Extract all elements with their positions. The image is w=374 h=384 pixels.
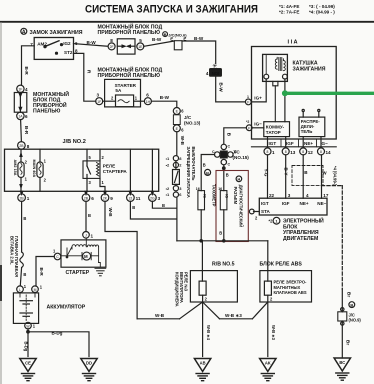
svg-text:14: 14 — [326, 150, 332, 155]
svg-text:6: 6 — [91, 196, 94, 201]
battery second terminal — [32, 285, 43, 293]
svg-text:IG−: IG− — [202, 194, 206, 201]
battery symbol — [20, 293, 35, 322]
wire IG- to igniter — [253, 127, 264, 129]
svg-text:22: 22 — [269, 193, 275, 198]
svg-text:Br: Br — [347, 292, 352, 297]
svg-text:AK: AK — [265, 361, 271, 366]
svg-text:ПРИБОРНОЙ ПАНЕЛЬЮ: ПРИБОРНОЙ ПАНЕЛЬЮ — [98, 71, 161, 79]
starter ground — [95, 268, 106, 276]
svg-text:B-R: B-R — [24, 126, 29, 135]
wire ABS relay to ground AK — [267, 302, 269, 357]
relay pin 2 — [99, 149, 101, 161]
J/C NO.6 label B — [163, 32, 187, 38]
svg-text:NE+: NE+ — [304, 141, 313, 146]
svg-text:6: 6 — [146, 92, 149, 97]
starter relay box — [83, 161, 100, 179]
svg-text:C: C — [212, 150, 215, 154]
svg-text:C: C — [228, 163, 231, 167]
svg-text:B-R: B-R — [39, 268, 44, 277]
svg-text:AM2 15A: AM2 15A — [13, 160, 17, 176]
svg-text:*2: 7A-FE: *2: 7A-FE — [279, 9, 299, 14]
svg-text:IG2: IG2 — [63, 41, 71, 46]
svg-text:1F: 1F — [97, 100, 101, 104]
svg-text:1: 1 — [247, 95, 249, 99]
svg-text:W-B: W-B — [180, 136, 185, 146]
battery plus terminal — [17, 284, 27, 293]
svg-text:СТАРТЕРА: СТАРТЕРА — [103, 169, 128, 174]
instrument panel block (left) box — [14, 93, 26, 113]
svg-text:B: B — [203, 163, 206, 168]
ground DD — [81, 359, 97, 381]
strip dividers — [281, 139, 317, 147]
svg-text:5A: 5A — [115, 88, 122, 93]
distributor pickup stubs — [302, 112, 304, 118]
svg-text:B-W: B-W — [152, 37, 162, 42]
wire 1A to 2B — [20, 120, 23, 142]
green highlight wire — [282, 91, 374, 96]
wire G- to ECU NE- — [321, 155, 323, 198]
svg-text:2B: 2B — [19, 144, 24, 148]
svg-text:W-B: W-B — [108, 208, 113, 218]
J/B NO.2 box — [5, 149, 159, 191]
fusible link element — [20, 252, 24, 268]
bus to ABS relay — [267, 241, 269, 281]
connector 1E 5 — [137, 38, 144, 50]
ABS relay block box — [260, 271, 312, 302]
svg-text:B-R: B-R — [24, 67, 29, 76]
svg-text:IG+: IG+ — [254, 96, 262, 101]
label instrument panel block — [33, 90, 69, 115]
svg-text:КОММУ-: КОММУ- — [266, 124, 285, 129]
ECU terminal names — [261, 201, 327, 214]
wire starter to battery plus — [36, 257, 54, 287]
svg-text:W-B ∗3: W-B ∗3 — [225, 313, 242, 318]
page left border — [0, 23, 2, 384]
ignition switch SW1 box — [34, 38, 73, 60]
ground bus wire — [177, 240, 268, 242]
svg-text:3: 3 — [158, 196, 161, 201]
svg-text:A: A — [22, 29, 26, 35]
arrows inside block — [18, 93, 22, 113]
svg-text:B: B — [206, 170, 209, 175]
wire IGT to ECU — [267, 155, 269, 198]
starter internals — [61, 238, 101, 267]
relay coil — [97, 163, 100, 177]
svg-text:(NO.15): (NO.15) — [233, 155, 250, 160]
ground BC — [334, 358, 350, 380]
svg-text:9: 9 — [110, 196, 113, 201]
svg-text:ПРИБОРНОЙ ПАНЕЛЬЮ: ПРИБОРНОЙ ПАНЕЛЬЮ — [98, 28, 161, 36]
ground CE — [20, 359, 36, 381]
fan relay no.3 — [201, 241, 203, 281]
svg-text:17: 17 — [323, 193, 329, 198]
svg-text:1E: 1E — [138, 45, 143, 49]
connector 1A 6 — [17, 112, 28, 119]
svg-text:8: 8 — [27, 144, 30, 149]
wire 2B6 down to starter — [85, 201, 87, 231]
svg-text:6: 6 — [25, 114, 28, 119]
svg-text:B: B — [132, 205, 135, 210]
fuse AM2 15A — [13, 149, 28, 191]
W-B link between relays — [137, 318, 179, 320]
svg-text:1: 1 — [91, 234, 94, 239]
svg-text:8: 8 — [267, 150, 269, 154]
J/C NO.6 junction square — [174, 41, 182, 50]
svg-text:3: 3 — [288, 193, 291, 198]
svg-text:IG−: IG− — [254, 122, 262, 127]
svg-text:4: 4 — [306, 193, 309, 198]
svg-text:C: C — [228, 145, 231, 149]
svg-text:MAIN 40A: MAIN 40A — [32, 160, 36, 178]
internal feeders to 2J and 2G — [129, 149, 131, 191]
J/C NO.9 — [338, 289, 362, 358]
neutral start switch — [166, 156, 183, 197]
connector 2B 8 — [18, 142, 30, 150]
svg-text:5: 5 — [139, 38, 142, 43]
svg-text:8: 8 — [320, 150, 322, 154]
instrument panel block (top) label — [98, 23, 163, 37]
starter C terminal — [53, 249, 61, 260]
wire NE+ to ECU — [302, 155, 304, 198]
connector 2K 9 — [101, 191, 113, 202]
wire coil minus down to igniter — [284, 79, 286, 122]
svg-text:AM2: AM2 — [37, 42, 47, 47]
svg-text:B: B — [219, 231, 222, 236]
svg-text:ЗАМОК ЗАЖИГАНИЯ: ЗАМОК ЗАЖИГАНИЯ — [30, 30, 83, 36]
connector 2J 11 — [127, 191, 141, 202]
title — [85, 4, 335, 16]
svg-text:NOI: NOI — [212, 71, 219, 76]
svg-text:11: 11 — [136, 196, 141, 201]
svg-text:NE+: NE+ — [300, 201, 309, 206]
wire to J/C NO.13 — [151, 101, 176, 107]
ignition coil box — [263, 54, 288, 81]
svg-text:J/B NO.2: J/B NO.2 — [63, 139, 86, 145]
terminal names — [269, 141, 329, 146]
wire J/C15 left to tachometer — [201, 155, 214, 191]
svg-text:E: E — [170, 36, 173, 41]
svg-text:IGF: IGF — [286, 141, 294, 146]
wire switch to bus — [176, 197, 178, 241]
svg-text:I I A: I I A — [288, 40, 298, 46]
connector 2B 1 — [18, 191, 30, 202]
svg-text:NE−: NE− — [317, 201, 326, 206]
terminal strip line — [252, 146, 337, 148]
svg-text:*4 (04.99-): *4 (04.99-) — [333, 166, 338, 186]
svg-text:CE: CE — [25, 361, 31, 366]
svg-text:2K: 2K — [103, 196, 108, 200]
dashed wire to J/C NO.9 — [322, 186, 343, 289]
svg-text:AB: AB — [200, 361, 206, 366]
distributor box — [299, 117, 325, 137]
svg-text:ЗАЖИГАНИЯ: ЗАЖИГАНИЯ — [293, 66, 326, 72]
wire J/C15 down to diagnostic — [223, 165, 225, 191]
STARTER 5A fuse box — [105, 79, 141, 107]
wire battery minus to grounds — [27, 329, 29, 357]
wire 2B1 down fusible link — [21, 201, 23, 252]
svg-text:РЕЛЕ: РЕЛЕ — [103, 164, 115, 169]
wire IG+ to coil — [251, 79, 266, 102]
ECU STA stub — [254, 211, 260, 213]
svg-text:B: B — [350, 303, 353, 308]
svg-text:*1: 4A-FE: *1: 4A-FE — [279, 4, 299, 9]
starter relay label — [103, 164, 128, 174]
svg-text:ТАТОР: ТАТОР — [266, 130, 281, 135]
svg-text:*2: *2 — [246, 120, 249, 124]
connector 2B 6 — [82, 191, 94, 202]
svg-text:J/C: J/C — [233, 150, 241, 155]
main fusible link label — [9, 236, 19, 277]
ignition switch contacts — [37, 41, 73, 55]
svg-text:M: M — [34, 288, 37, 292]
relay contact — [87, 161, 91, 179]
svg-text:Br: Br — [346, 340, 351, 345]
instrument panel block (starter fuse) label — [98, 66, 163, 80]
svg-text:13: 13 — [290, 150, 296, 155]
wire 2K9 W-B down — [105, 201, 137, 318]
svg-text:*3: ( - 04.99): *3: ( - 04.99) — [309, 4, 335, 9]
svg-text:8: 8 — [110, 38, 113, 43]
svg-text:B-W: B-W — [218, 83, 223, 93]
ECU box — [259, 198, 327, 215]
svg-text:H: H — [238, 178, 241, 182]
svg-text:IGT: IGT — [261, 201, 269, 206]
IIA distributor assembly box — [252, 47, 337, 140]
fan relay label — [175, 272, 189, 307]
svg-text:B-Y: B-Y — [284, 168, 289, 176]
svg-text:2J: 2J — [129, 196, 133, 200]
svg-text:IG−: IG− — [225, 194, 229, 201]
connector circles below IIA — [264, 148, 331, 155]
svg-text:*4: (04.99 - ): *4: (04.99 - ) — [309, 9, 335, 14]
relay pin 1 — [100, 178, 105, 191]
svg-text:1H: 1H — [146, 100, 151, 104]
svg-text:1A: 1A — [18, 115, 23, 119]
svg-text:B-W: B-W — [87, 40, 97, 45]
coil terminals — [264, 74, 269, 79]
svg-text:B: B — [23, 272, 26, 277]
svg-text:ST2: ST2 — [64, 50, 73, 55]
svg-text:ПАНЕЛЬЮ: ПАНЕЛЬЮ — [33, 109, 61, 115]
svg-text:L: L — [19, 288, 21, 292]
J/C label B — [205, 169, 211, 175]
starter solenoid connector 1 — [83, 232, 94, 239]
wire down to neutral start switch — [176, 132, 178, 155]
svg-text:2G: 2G — [150, 196, 155, 200]
fuse MAIN 40A — [32, 149, 47, 191]
svg-text:W-B ∗4: W-B ∗4 — [206, 325, 211, 341]
diagnostic label H — [233, 176, 243, 227]
ABS solenoid relay — [264, 281, 271, 295]
svg-text:F: F — [247, 101, 249, 105]
connector F IG+ — [245, 95, 262, 105]
svg-text:B: B — [226, 173, 229, 178]
svg-text:КЛАПАНОВ ABS: КЛАПАНОВ ABS — [274, 290, 307, 295]
svg-text:Y-G: Y-G — [263, 169, 268, 177]
svg-text:3: 3 — [97, 92, 100, 97]
R/B NO.5 box — [190, 271, 237, 302]
wire B-W to J/C NO.6 — [144, 41, 175, 46]
svg-text:B: B — [23, 216, 26, 221]
wire AM2 to left — [22, 46, 35, 85]
high tension tower — [273, 81, 278, 121]
wire B-W to coil feed — [182, 41, 216, 64]
svg-text:B: B — [164, 33, 167, 37]
svg-text:8: 8 — [302, 150, 304, 154]
svg-text:(NO.9): (NO.9) — [349, 318, 362, 323]
svg-text:B-Dg: B-Dg — [52, 330, 63, 335]
svg-text:J: J — [85, 234, 87, 238]
relay pin 3 — [86, 178, 88, 191]
instrument panel block (top) box with arrows — [117, 39, 135, 54]
ground AK — [260, 359, 276, 381]
svg-text:ЗАПРЕЩЕНИЯ ЗАПУСКА: ЗАПРЕЩЕНИЯ ЗАПУСКА — [186, 147, 191, 198]
ground AB — [194, 359, 210, 381]
svg-text:ДВИГАТЕЛЕМ: ДВИГАТЕЛЕМ — [283, 236, 318, 242]
svg-text:G−: G− — [322, 141, 329, 146]
svg-text:IGT: IGT — [269, 141, 277, 146]
diagnostic connector box (red) — [216, 171, 248, 242]
svg-text:ТЕЛЬ: ТЕЛЬ — [301, 129, 313, 134]
connector 1F 4 — [17, 85, 28, 92]
battery box — [13, 293, 38, 324]
wire IG2 B-W right — [74, 44, 108, 47]
ABS relay label — [274, 280, 308, 295]
wire ST2 right and down — [74, 53, 96, 101]
svg-text:B-W: B-W — [160, 95, 170, 100]
svg-text:1: 1 — [272, 150, 275, 155]
wire IGF to ECU — [285, 155, 287, 198]
neutral switch label — [186, 147, 196, 198]
svg-text:2B: 2B — [20, 196, 25, 200]
svg-text:STA: STA — [261, 209, 271, 214]
connector F IG- — [246, 120, 262, 131]
svg-text:J/C: J/C — [184, 115, 192, 120]
igniter box — [264, 122, 290, 137]
svg-text:W-B: W-B — [155, 313, 165, 318]
wire 2J11 to fan relay — [130, 201, 177, 219]
svg-text:КОНДИЦИОНЕРА: КОНДИЦИОНЕРА — [175, 272, 180, 307]
svg-text:B: B — [88, 213, 91, 218]
svg-text:4: 4 — [25, 87, 28, 92]
J/C NO.13 — [173, 108, 201, 133]
tachometer terminal — [198, 191, 205, 210]
svg-text:ВСТАВКА 2.0L: ВСТАВКА 2.0L — [9, 236, 14, 265]
wires terminals to bus — [200, 210, 202, 241]
svg-text:БЛОК РЕЛЕ ABS: БЛОК РЕЛЕ ABS — [260, 261, 303, 267]
J/C NO.15 cluster — [212, 144, 249, 166]
coil windings — [266, 56, 285, 75]
svg-text:DD: DD — [86, 361, 92, 366]
svg-text:B: B — [162, 203, 165, 208]
svg-text:16: 16 — [218, 187, 222, 191]
svg-text:1F: 1F — [18, 88, 22, 92]
battery minus terminal — [25, 322, 36, 329]
svg-text:12: 12 — [308, 150, 314, 155]
wires to terminal strip — [267, 137, 269, 148]
svg-text:F: F — [248, 126, 250, 130]
svg-text:B-W: B-W — [194, 36, 204, 41]
dashed alternate wiring box — [292, 166, 323, 186]
svg-text:СТАРТЕР: СТАРТЕР — [66, 270, 90, 276]
svg-text:2F: 2F — [110, 45, 114, 49]
svg-text:ЭЛЕКТРОННЫЙ: ЭЛЕКТРОННЫЙ — [283, 217, 324, 225]
svg-text:BC: BC — [339, 360, 345, 365]
connector 2G 3 — [149, 191, 161, 202]
svg-text:(NO.13): (NO.13) — [184, 120, 201, 125]
starter box — [61, 240, 106, 267]
ECU label — [269, 217, 325, 242]
wire filter down to IG+ — [216, 76, 245, 102]
svg-text:B-Dg: B-Dg — [24, 342, 29, 352]
ignition switch label A — [21, 28, 83, 36]
svg-text:16: 16 — [196, 187, 200, 191]
svg-text:IGF: IGF — [282, 201, 290, 206]
wire J/C15 up to IG- — [224, 128, 247, 144]
svg-text:8: 8 — [285, 150, 287, 154]
diagnostic IG- terminal — [220, 191, 227, 210]
connector 2F 8 — [108, 38, 115, 50]
svg-text:W-B ∗3: W-B ∗3 — [271, 325, 276, 341]
connector 1F 3 — [96, 92, 103, 104]
noise filter 4 — [206, 63, 222, 76]
svg-text:4: 4 — [206, 71, 209, 76]
wire 2G3 to switch — [152, 201, 177, 208]
svg-text:СИСТЕМА ЗАПУСКА И ЗАЖИГАНИЯ: СИСТЕМА ЗАПУСКА И ЗАЖИГАНИЯ — [85, 4, 258, 16]
fuse element — [103, 95, 145, 107]
connector 1H 6 — [144, 92, 151, 104]
svg-text:1: 1 — [27, 196, 30, 201]
ignition coil label — [293, 61, 326, 73]
svg-text:R/B NO.5: R/B NO.5 — [212, 261, 235, 267]
ECU terminal numbers — [269, 193, 329, 198]
svg-text:2B: 2B — [84, 196, 89, 200]
relay pin 5 — [86, 149, 88, 161]
title rule — [0, 21, 374, 23]
svg-text:АККУМУЛЯТОР: АККУМУЛЯТОР — [47, 304, 86, 310]
wire fan relay to ground AB — [202, 302, 204, 357]
svg-text:РАЗЪЕМ: РАЗЪЕМ — [233, 187, 238, 205]
svg-text:M: M — [84, 254, 88, 259]
